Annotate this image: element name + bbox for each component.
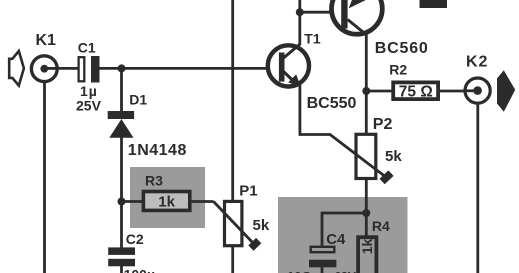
svg-text:K1: K1 <box>36 32 57 49</box>
resistor R4 <box>358 237 376 273</box>
potentiometer P2 <box>330 134 391 181</box>
wire K1 to C1 <box>57 67 78 70</box>
wire R3 to P1 wiper <box>192 200 214 203</box>
wire T1 collector up <box>298 0 301 45</box>
wire junction to R2 <box>366 90 394 93</box>
wire P2 bottom to node <box>365 177 368 214</box>
potentiometer P1 <box>214 201 259 248</box>
input arrow <box>9 51 24 86</box>
wire P1 top rail <box>231 0 234 201</box>
gray highlight box around R3 <box>130 167 205 228</box>
wire R2 to K2 <box>439 90 465 93</box>
node input junction <box>118 64 126 72</box>
connector K1 <box>31 56 58 82</box>
wire junction down to D1 <box>120 68 123 112</box>
svg-text:D1: D1 <box>129 91 147 107</box>
wire junction to R4 <box>365 213 368 238</box>
svg-text:25V: 25V <box>76 97 102 113</box>
node output junction <box>362 87 370 95</box>
connector K2 <box>463 78 490 103</box>
wire P1 bottom <box>231 246 234 273</box>
svg-text:R3: R3 <box>145 173 163 189</box>
transistor T2 BC560 <box>332 0 383 35</box>
wire K1 shield down <box>43 82 46 273</box>
wire T1 emitter down and right to P2 wiper <box>299 85 331 135</box>
wire C2 down <box>120 266 123 273</box>
diode D1 <box>108 111 134 138</box>
node collector junction <box>296 8 304 16</box>
svg-text:5k: 5k <box>385 148 402 165</box>
svg-text:100µ: 100µ <box>124 266 155 273</box>
svg-text:C1: C1 <box>78 40 96 56</box>
output arrow <box>497 70 515 112</box>
svg-text:63V: 63V <box>335 270 356 273</box>
capacitor C2 <box>108 247 135 266</box>
wire junction left to C4 <box>322 212 366 215</box>
wire D1 to R3 node and C2 <box>120 137 123 249</box>
capacitor C4 <box>309 247 336 267</box>
svg-text:K2: K2 <box>466 53 488 70</box>
wire to T2 base <box>300 11 342 14</box>
svg-text:1k: 1k <box>158 194 175 211</box>
svg-text:10Ω: 10Ω <box>287 269 312 273</box>
svg-text:BC560: BC560 <box>375 40 429 57</box>
gray highlight box around C4/R4 <box>278 197 408 273</box>
resistor R2 <box>393 82 438 99</box>
svg-text:1k: 1k <box>359 239 375 255</box>
capacitor C1 <box>79 56 100 83</box>
wire junction to R3 <box>122 200 144 203</box>
svg-text:C4: C4 <box>326 231 346 248</box>
svg-text:5k: 5k <box>253 217 270 234</box>
node C4/R4 junction <box>362 209 370 217</box>
svg-text:P2: P2 <box>373 116 393 133</box>
svg-text:1N4148: 1N4148 <box>128 142 187 159</box>
capacitor plate top right (cut off) <box>420 0 448 8</box>
wire K2 shield down <box>476 103 479 273</box>
transistor T1 <box>268 44 309 87</box>
node R3 junction <box>118 198 126 206</box>
wire C4 down <box>321 267 324 273</box>
svg-text:R2: R2 <box>389 61 407 77</box>
svg-text:T1: T1 <box>304 31 321 47</box>
svg-text:P1: P1 <box>239 182 257 199</box>
wire C4 branch down <box>321 212 324 247</box>
wire C1 to T1 base <box>100 67 280 70</box>
svg-text:R4: R4 <box>372 218 390 234</box>
svg-text:75 Ω: 75 Ω <box>399 83 433 100</box>
wire T2 collector down <box>365 34 368 134</box>
svg-text:C2: C2 <box>126 231 144 247</box>
svg-text:BC550: BC550 <box>307 95 357 112</box>
resistor R3 <box>143 192 189 211</box>
